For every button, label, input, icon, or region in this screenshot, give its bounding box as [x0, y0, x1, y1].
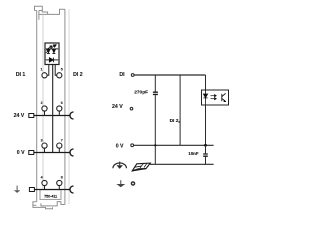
0V wire	[134, 144, 214, 146]
legend circle bottom	[131, 182, 134, 185]
24V bus line	[34, 115, 70, 117]
optocoupler U1 box	[202, 90, 229, 105]
0V bus line	[34, 152, 70, 154]
module housing outline: left edge	[36, 11, 38, 202]
junction node cap branch / 0V	[154, 144, 156, 146]
svg-text:8: 8	[61, 176, 63, 180]
DI terminal circle	[131, 74, 134, 77]
stem terminal 4	[44, 186, 46, 190]
svg-text:DI: DI	[119, 72, 125, 78]
wire: LED box to terminal 1	[47, 65, 49, 76]
svg-text:270pF: 270pF	[134, 89, 148, 95]
power jumper contact 24V	[70, 112, 74, 119]
earth clamp square	[29, 188, 34, 192]
svg-text:0 V: 0 V	[116, 143, 124, 149]
module housing outline: top latch	[35, 6, 48, 20]
junction node on 0V	[204, 144, 207, 147]
svg-text:24 V: 24 V	[14, 113, 25, 119]
optocoupler output wire	[205, 105, 207, 145]
svg-text:6: 6	[61, 101, 63, 105]
LED box	[45, 43, 59, 65]
arrow inside arc	[119, 162, 121, 166]
marking field box	[40, 190, 61, 200]
stem terminal 3	[44, 148, 46, 152]
svg-text:3: 3	[41, 138, 43, 142]
svg-text:10nF: 10nF	[188, 151, 199, 156]
DI 2x branch	[179, 75, 181, 145]
wire: center line from LED box down to 0V rail	[52, 65, 54, 153]
svg-text:0 V: 0 V	[17, 150, 25, 156]
svg-text:750-411: 750-411	[44, 194, 58, 199]
module inner contour line	[42, 14, 44, 189]
svg-text:5: 5	[61, 68, 63, 72]
functional earth line	[150, 163, 214, 165]
svg-text:2: 2	[41, 101, 43, 105]
terminal 2	[42, 106, 47, 111]
optocoupler feed wire	[205, 75, 207, 90]
terminal 5	[57, 73, 62, 78]
earth symbol left	[14, 186, 21, 193]
module bottom foot: middle tab and right step	[41, 202, 65, 206]
terminal 4	[42, 180, 47, 185]
earth arrow bottom	[120, 180, 122, 184]
module bottom foot: bottom rail line	[33, 205, 53, 209]
terminal 7	[57, 143, 62, 148]
svg-text:1: 1	[41, 68, 43, 72]
power jumper blade symbol	[132, 163, 150, 171]
adjacent module faint edge	[68, 9, 70, 204]
24V terminal circle	[130, 107, 133, 110]
potential feed arc symbol	[113, 163, 127, 168]
module housing outline: right edge	[64, 9, 66, 204]
wire: LED box to terminal 5	[55, 65, 56, 76]
0V clamp square	[29, 151, 34, 155]
24V clamp square	[29, 114, 34, 118]
DI wire	[134, 74, 205, 76]
optocoupler phototransistor	[222, 93, 226, 101]
svg-text:4: 4	[41, 176, 43, 180]
module housing outline: top edge	[39, 9, 65, 14]
svg-text:7: 7	[61, 138, 63, 142]
stem terminal 7	[58, 148, 60, 152]
terminal 8	[57, 180, 62, 185]
capacitor 10nF upper lead	[205, 145, 207, 153]
stem terminal 6	[58, 111, 60, 115]
power jumper contact earth	[70, 186, 74, 193]
svg-text:DI 1: DI 1	[16, 72, 26, 78]
capacitor 270pF branch upper lead	[154, 75, 156, 92]
terminal 6	[57, 106, 62, 111]
earth bus line	[34, 189, 70, 191]
module bottom foot: left hook	[33, 202, 37, 205]
capacitor 10nF plates	[203, 154, 208, 156]
stem terminal 2	[44, 111, 46, 115]
svg-text:24 V: 24 V	[112, 104, 123, 110]
diode inside box	[46, 58, 58, 63]
stem terminal 8	[58, 186, 60, 190]
capacitor 270pF plates	[153, 92, 158, 94]
capacitor 10nF lower lead	[205, 157, 207, 165]
0V terminal circle	[131, 144, 134, 147]
optocoupler light arrows	[211, 95, 217, 100]
terminal 3	[42, 143, 47, 148]
capacitor 270pF lower lead, continues to FE line	[154, 95, 156, 164]
optocoupler LED	[203, 90, 207, 105]
LED pair inside box	[46, 45, 59, 54]
svg-text:DI 2: DI 2	[73, 72, 83, 78]
terminal 1	[42, 73, 47, 78]
power jumper contact 0V	[70, 149, 74, 156]
